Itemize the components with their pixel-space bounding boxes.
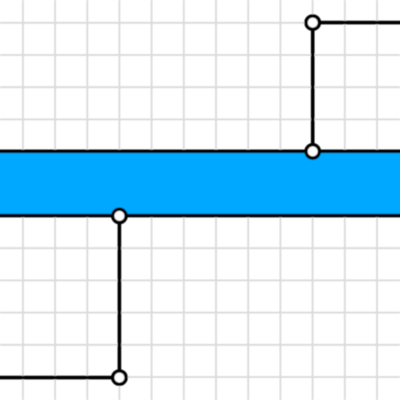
node: net A connection to bus bar xyxy=(306,145,319,158)
wire: net B horizontal segment xyxy=(0,376,119,380)
wire: net A vertical segment xyxy=(311,23,315,152)
node: net B connection to bus bar xyxy=(113,209,126,222)
wire: net A horizontal segment xyxy=(313,21,400,25)
node: net A corner junction xyxy=(306,16,319,29)
bus bar (blue band) xyxy=(0,151,400,215)
node: net B corner junction xyxy=(113,371,126,384)
wire: net B vertical segment xyxy=(118,216,122,378)
